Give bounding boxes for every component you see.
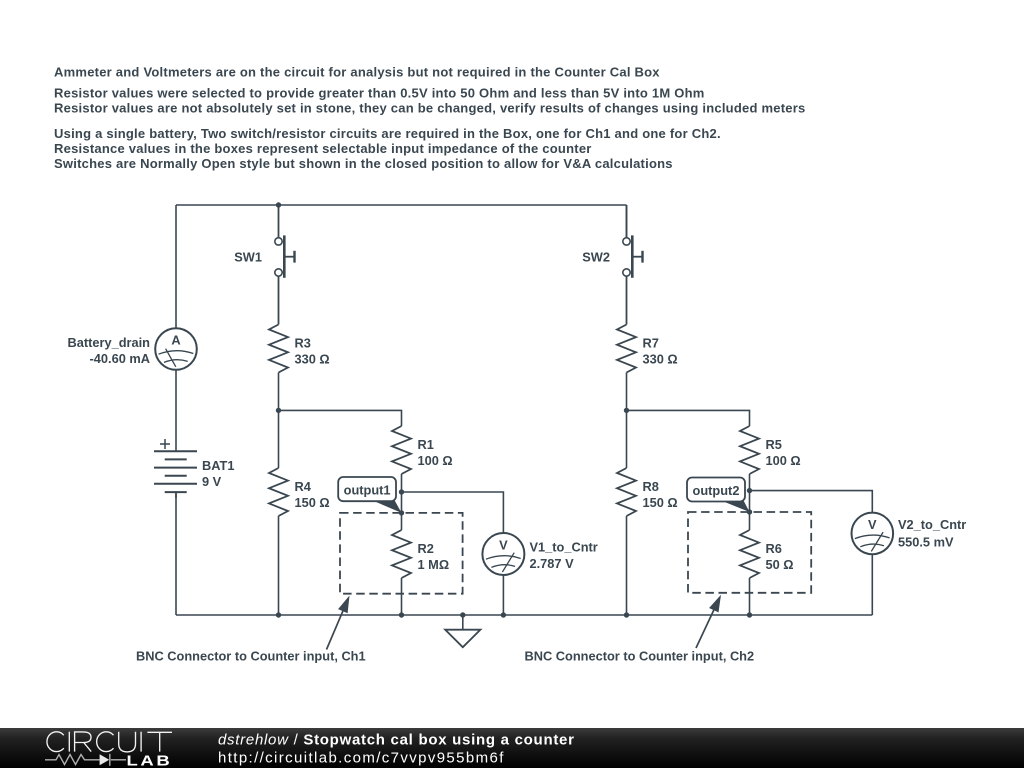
- svg-text:R6: R6: [766, 541, 782, 556]
- switch SW1: [275, 205, 295, 325]
- svg-text:Resistor values were selected: Resistor values were selected to provide…: [54, 85, 705, 100]
- svg-text:dstrehlow / Stopwatch cal box: dstrehlow / Stopwatch cal box using a co…: [218, 732, 575, 749]
- logo CIRCUIT (thin stroked letters): [47, 732, 172, 752]
- resistor R5: [740, 426, 759, 474]
- junction: R3-R4-R1 junction: [276, 408, 281, 413]
- footer bar: [0, 728, 1024, 768]
- voltmeter V1_to_Cntr: [482, 533, 524, 575]
- resistor R8: [617, 468, 636, 516]
- junction: bottom rail / R4: [276, 612, 281, 617]
- wire: R8 stubs: [626, 410, 628, 468]
- arrow to BNC box Ch2: [696, 604, 717, 648]
- junction: R7-R8-R5 junction: [624, 408, 629, 413]
- svg-text:LAB: LAB: [126, 752, 172, 768]
- svg-text:http://circuitlab.com/c7vvpv95: http://circuitlab.com/c7vvpv955bm6f: [218, 750, 505, 767]
- ground: [462, 615, 464, 630]
- svg-text:R2: R2: [418, 541, 434, 556]
- resistor R1: [392, 426, 411, 474]
- svg-text:Ammeter and Voltmeters are on: Ammeter and Voltmeters are on the circui…: [54, 64, 660, 79]
- battery BAT1: [154, 439, 197, 498]
- wire: R5 bottom to output2 node and anchor: [749, 474, 751, 512]
- wire: R2 stubs: [401, 513, 403, 530]
- junction: output2 anchor: [747, 509, 752, 514]
- svg-text:SW1: SW1: [234, 250, 262, 265]
- BNC dashed box Ch1: [340, 513, 463, 594]
- svg-text:R3: R3: [295, 336, 311, 351]
- svg-text:BNC Connector to Counter input: BNC Connector to Counter input, Ch2: [525, 649, 755, 664]
- junction: bottom rail / R2: [399, 612, 404, 617]
- wire: SW2 drop from top rail: [626, 205, 628, 238]
- svg-text:-40.60 mA: -40.60 mA: [90, 351, 150, 366]
- svg-text:330 Ω: 330 Ω: [643, 352, 678, 367]
- wire: bottom rail: [176, 614, 872, 616]
- wire: top rail: [176, 204, 627, 206]
- voltmeter V2_to_Cntr: [852, 513, 894, 555]
- svg-text:Using a single battery, Two sw: Using a single battery, Two switch/resis…: [54, 126, 721, 141]
- wire: R4 stubs: [278, 410, 280, 468]
- junction: bottom rail / R8: [624, 612, 629, 617]
- junction: bottom rail / V1: [501, 612, 506, 617]
- junction: output2 node: [747, 488, 752, 493]
- svg-text:V: V: [499, 538, 508, 553]
- svg-text:9 V: 9 V: [202, 474, 222, 489]
- svg-text:R5: R5: [766, 437, 782, 452]
- junction: bottom rail / ground: [460, 612, 465, 617]
- svg-text:SW2: SW2: [582, 250, 610, 265]
- logo resistor-diode doodle: [45, 754, 126, 766]
- svg-text:BNC Connector to Counter input: BNC Connector to Counter input, Ch1: [136, 649, 366, 664]
- resistor R4: [269, 468, 288, 516]
- BNC dashed box Ch2: [688, 512, 811, 593]
- svg-text:output2: output2: [693, 483, 740, 498]
- wire: R1 bottom to output1 node and anchor: [401, 474, 403, 513]
- wire: output1 to voltmeter V1: [402, 492, 504, 533]
- resistor R2: [392, 530, 411, 578]
- svg-text:V1_to_Cntr: V1_to_Cntr: [530, 540, 598, 555]
- svg-text:R4: R4: [295, 479, 312, 494]
- wire: output2 to voltmeter V2: [750, 491, 873, 513]
- resistor R6: [740, 530, 759, 578]
- switch SW2: [623, 205, 643, 325]
- net flag output1: [338, 477, 401, 513]
- svg-text:150 Ω: 150 Ω: [643, 495, 678, 510]
- svg-text:R8: R8: [643, 479, 659, 494]
- junction: bottom rail / R6: [747, 612, 752, 617]
- svg-text:Resistor values are not absolu: Resistor values are not absolutely set i…: [54, 100, 806, 115]
- junction: top rail / SW1: [276, 202, 281, 207]
- ammeter Battery_drain: [155, 328, 197, 370]
- svg-text:A: A: [171, 333, 180, 348]
- svg-text:330 Ω: 330 Ω: [295, 352, 330, 367]
- svg-text:Switches are Normally Open sty: Switches are Normally Open style but sho…: [54, 156, 673, 171]
- resistor R7: [617, 325, 636, 373]
- svg-text:50 Ω: 50 Ω: [766, 557, 794, 572]
- resistor R3: [269, 325, 288, 373]
- svg-text:100 Ω: 100 Ω: [418, 453, 453, 468]
- svg-text:550.5 mV: 550.5 mV: [898, 535, 954, 550]
- wire: R7 stubs: [626, 373, 628, 411]
- net flag output2: [687, 478, 750, 513]
- svg-text:output1: output1: [344, 483, 391, 498]
- svg-text:R1: R1: [418, 437, 434, 452]
- svg-text:V2_to_Cntr: V2_to_Cntr: [898, 517, 966, 532]
- junction: output1 anchor: [399, 510, 404, 515]
- wire: junction to R5 branch: [627, 410, 750, 426]
- svg-text:Battery_drain: Battery_drain: [68, 335, 151, 350]
- svg-text:100 Ω: 100 Ω: [766, 453, 801, 468]
- wire: junction to R1 branch: [279, 410, 402, 426]
- wire: left branch (battery/ammeter column): [175, 205, 177, 329]
- svg-text:BAT1: BAT1: [202, 458, 234, 473]
- wire: R3 stubs: [278, 373, 280, 411]
- junction: output1 node: [399, 489, 404, 494]
- svg-text:1 MΩ: 1 MΩ: [418, 557, 450, 572]
- svg-text:Resistance values in the boxes: Resistance values in the boxes represent…: [54, 141, 592, 156]
- svg-text:150 Ω: 150 Ω: [295, 495, 330, 510]
- wire: R6 stubs: [749, 512, 751, 530]
- svg-text:V: V: [868, 517, 877, 532]
- arrow to BNC box Ch1: [327, 605, 346, 650]
- svg-text:2.787 V: 2.787 V: [530, 556, 575, 571]
- svg-text:R7: R7: [643, 336, 659, 351]
